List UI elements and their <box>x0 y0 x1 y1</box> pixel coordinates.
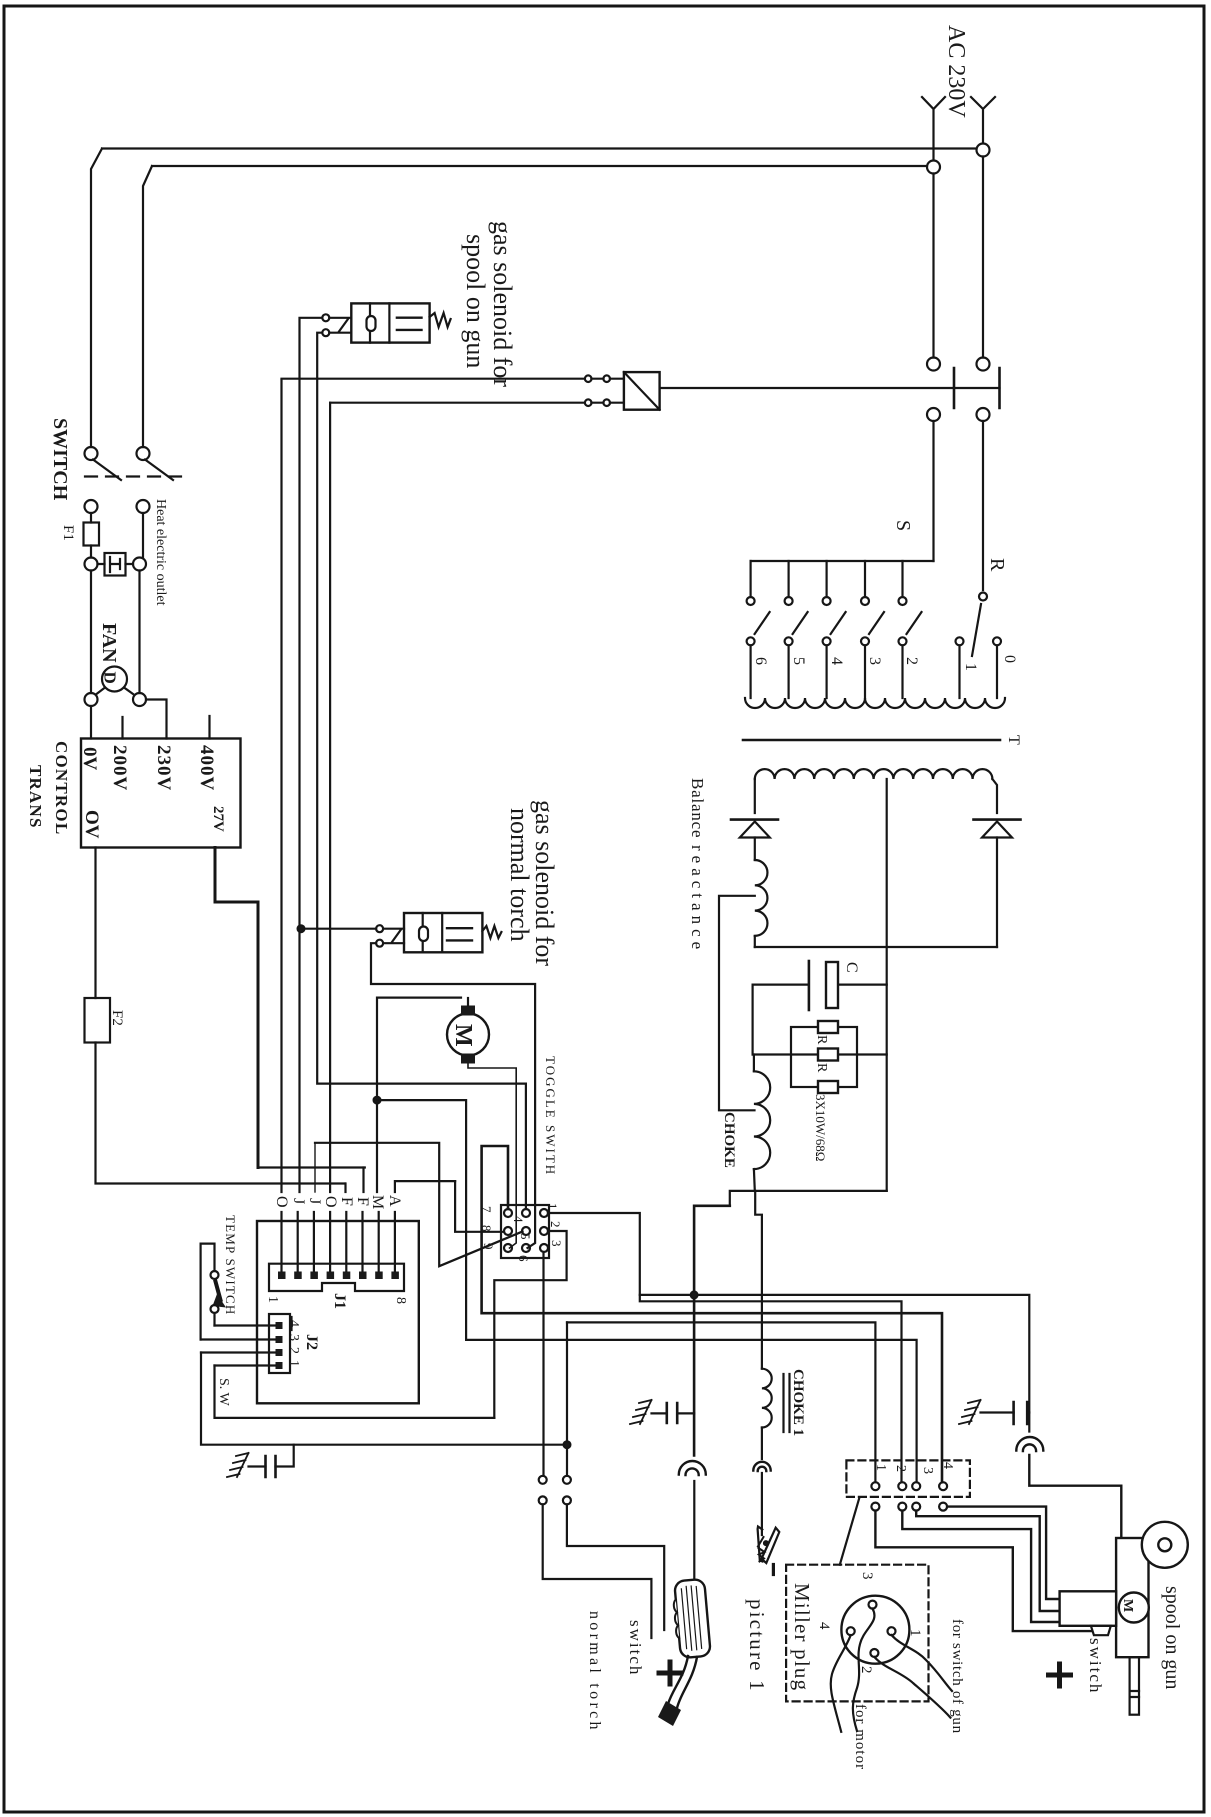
svg-text:A: A <box>386 1195 403 1207</box>
svg-text:TRANS: TRANS <box>26 765 45 829</box>
svg-text:27V: 27V <box>210 806 226 832</box>
svg-text:reactance: reactance <box>688 845 707 954</box>
svg-text:J: J <box>290 1198 307 1204</box>
svg-text:3: 3 <box>549 1240 564 1247</box>
svg-text:1: 1 <box>962 663 979 671</box>
svg-text:4: 4 <box>286 1320 301 1327</box>
svg-text:9: 9 <box>481 1243 496 1250</box>
svg-text:4: 4 <box>940 1462 955 1469</box>
svg-text:Miller plug: Miller plug <box>790 1583 814 1691</box>
svg-text:3X10W/68Ω: 3X10W/68Ω <box>813 1094 828 1161</box>
svg-text:OV: OV <box>81 810 102 839</box>
svg-text:F1: F1 <box>60 525 76 541</box>
svg-text:TEMP SWITCH: TEMP SWITCH <box>223 1215 238 1315</box>
svg-text:8: 8 <box>479 1225 494 1232</box>
svg-text:FAN: FAN <box>98 623 120 663</box>
svg-text:TOGGLE SWITH: TOGGLE SWITH <box>543 1056 558 1176</box>
svg-text:0V: 0V <box>79 747 100 771</box>
svg-text:C: C <box>843 962 860 973</box>
svg-text:CHOKE: CHOKE <box>721 1112 737 1168</box>
svg-text:gas solenoid for: gas solenoid for <box>488 221 517 387</box>
svg-text:switch: switch <box>626 1620 645 1676</box>
svg-text:7: 7 <box>479 1206 494 1213</box>
svg-text:for motor: for motor <box>852 1704 868 1770</box>
svg-text:F: F <box>354 1197 371 1206</box>
svg-text:J1: J1 <box>331 1293 348 1309</box>
svg-text:J2: J2 <box>303 1334 320 1350</box>
svg-text:S. W: S. W <box>216 1378 231 1407</box>
svg-text:3: 3 <box>859 1572 875 1580</box>
svg-text:1: 1 <box>286 1360 301 1367</box>
svg-text:6: 6 <box>752 657 769 665</box>
svg-text:2: 2 <box>903 657 920 665</box>
svg-text:normal torch: normal torch <box>586 1611 603 1733</box>
svg-text:O: O <box>322 1196 339 1208</box>
svg-text:5: 5 <box>518 1233 533 1240</box>
svg-text:1: 1 <box>265 1296 280 1303</box>
svg-text:230V: 230V <box>153 745 174 791</box>
svg-text:4: 4 <box>511 1216 526 1223</box>
svg-text:F: F <box>338 1197 355 1206</box>
svg-text:4: 4 <box>828 657 845 665</box>
svg-text:6: 6 <box>516 1255 531 1262</box>
svg-text:2: 2 <box>893 1465 908 1472</box>
svg-text:D: D <box>101 672 120 684</box>
svg-text:2: 2 <box>286 1347 301 1354</box>
svg-text:M: M <box>450 1024 476 1047</box>
svg-text:Balance: Balance <box>688 778 707 838</box>
svg-text:200V: 200V <box>109 745 130 791</box>
svg-text:S: S <box>892 520 914 531</box>
svg-text:0: 0 <box>1001 655 1018 663</box>
svg-text:2: 2 <box>858 1666 874 1674</box>
svg-text:R: R <box>814 1035 829 1045</box>
svg-text:switch: switch <box>1086 1638 1105 1694</box>
svg-text:Heat electric outlet: Heat electric outlet <box>153 499 168 606</box>
svg-text:CHOKE 1: CHOKE 1 <box>790 1369 806 1436</box>
svg-text:T: T <box>1005 735 1022 745</box>
svg-text:3: 3 <box>286 1334 301 1341</box>
svg-text:2: 2 <box>548 1221 563 1228</box>
svg-text:spool on gun: spool on gun <box>461 234 490 368</box>
svg-text:3: 3 <box>866 657 883 665</box>
svg-text:J: J <box>306 1198 323 1204</box>
svg-text:400V: 400V <box>196 745 217 791</box>
svg-text:M: M <box>1120 1599 1135 1612</box>
svg-text:3: 3 <box>920 1467 935 1474</box>
svg-text:4: 4 <box>816 1622 832 1630</box>
svg-text:5: 5 <box>790 657 807 665</box>
svg-text:R: R <box>986 558 1008 572</box>
svg-text:M: M <box>369 1195 386 1209</box>
svg-text:for switch of gun: for switch of gun <box>949 1619 965 1734</box>
svg-text:R: R <box>814 1063 829 1073</box>
svg-text:AC 230V: AC 230V <box>943 25 969 118</box>
svg-text:1: 1 <box>907 1629 923 1637</box>
svg-text:SWITCH: SWITCH <box>49 418 71 501</box>
svg-text:CONTROL: CONTROL <box>52 741 71 835</box>
svg-text:O: O <box>273 1196 290 1208</box>
svg-text:8: 8 <box>393 1297 408 1304</box>
svg-text:1: 1 <box>545 1203 560 1210</box>
svg-text:1: 1 <box>873 1464 888 1471</box>
svg-text:spool on gun: spool on gun <box>1161 1586 1183 1689</box>
svg-text:picture 1: picture 1 <box>745 1599 769 1693</box>
svg-text:F2: F2 <box>109 1010 125 1026</box>
svg-text:normal torch: normal torch <box>505 808 534 942</box>
